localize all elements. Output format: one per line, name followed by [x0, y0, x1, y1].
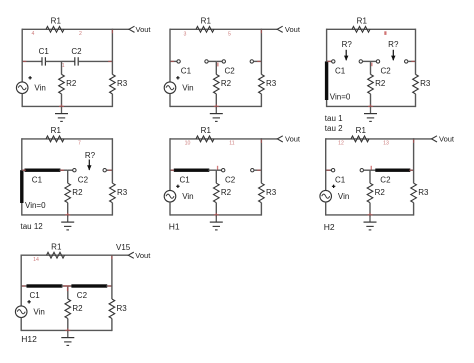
wire R2 to bottom (circuit 4) — [67, 203, 69, 215]
node 2 (circuit 1) — [79, 31, 82, 37]
probe arrow R? left (circuit 3) — [345, 50, 347, 60]
resistor R1 (circuit 6) — [351, 136, 369, 142]
resistor R3 (circuit 7) — [109, 299, 115, 318]
wire right rail lower (circuit 5) — [260, 203, 262, 216]
open terminal C1 left (circuit 6) — [331, 169, 334, 172]
open terminal C1 left (circuit 2) — [177, 60, 180, 63]
node 14 (circuit 7) — [33, 257, 39, 263]
node tick (circuit 7) — [63, 285, 70, 287]
svg-text:C2: C2 — [225, 67, 236, 76]
svg-text:Vout: Vout — [439, 135, 455, 144]
wire mid-right (circuit 3) — [408, 60, 416, 62]
wire mid-left stub (circuit 7) — [21, 285, 27, 287]
resistor R1 (circuit 2) — [196, 26, 214, 32]
wire mid-left stub (circuit 6) — [326, 169, 332, 171]
output pin Vout (circuit 7) — [128, 252, 134, 258]
wire bottom (circuit 1) — [22, 105, 112, 107]
svg-text:13: 13 — [383, 140, 389, 146]
svg-text:Vout: Vout — [136, 25, 152, 34]
junction ground node (circuit 4) — [65, 214, 70, 216]
net mark mid-left (circuit 4) — [23, 169, 27, 171]
resistor R3 (circuit 6) — [411, 183, 417, 202]
svg-text:R1: R1 — [201, 126, 212, 135]
resistor R2 (circuit 1) — [59, 74, 65, 93]
wire top (circuit 1) — [22, 28, 112, 30]
wire node to C2 (circuit 6) — [370, 169, 376, 171]
svg-text:C1: C1 — [335, 67, 346, 76]
wire C1 to node (circuit 3) — [363, 60, 371, 62]
wire top (circuit 6) — [326, 138, 414, 140]
svg-text:R1: R1 — [201, 17, 212, 26]
wire bottom (circuit 4) — [22, 214, 113, 216]
node tick (circuit 3) — [371, 63, 372, 67]
wire right rail upper (circuit 1) — [111, 29, 113, 75]
source Vin (circuit 2) — [164, 82, 176, 94]
junction ground node (circuit 2) — [214, 105, 219, 107]
wire mid-right (circuit 5) — [254, 169, 261, 171]
svg-text:R3: R3 — [420, 79, 431, 88]
source Vin (circuit 7) — [15, 306, 27, 318]
wire mid-right (circuit 1) — [78, 60, 112, 62]
wire node to R2 (circuit 4) — [67, 170, 69, 183]
wire bottom (circuit 7) — [21, 329, 112, 331]
wire C1 to node (circuit 6) — [364, 169, 371, 171]
plus mark Vin (circuit 5) — [176, 185, 179, 188]
wire mid-right (circuit 2) — [254, 60, 262, 62]
svg-text:C1: C1 — [32, 175, 43, 184]
wire node to R2 (circuit 7) — [67, 286, 69, 299]
open terminal C1 left (circuit 3) — [332, 60, 335, 63]
wire R2 to bottom (circuit 7) — [67, 319, 69, 331]
resistor R1 (circuit 1) — [46, 26, 64, 32]
open terminal C2 left (circuit 4) — [73, 169, 76, 172]
wire R2 to bottom (circuit 6) — [369, 203, 371, 215]
svg-text:C1: C1 — [180, 175, 191, 184]
wire C1 to node (circuit 1) — [45, 60, 61, 62]
node tick (circuit 7) — [67, 288, 68, 292]
wire left rail lower (circuit 6) — [325, 202, 327, 215]
wire R2 to bottom (circuit 2) — [215, 94, 217, 107]
ground (circuit 6) — [369, 215, 371, 222]
wire node to R2 (circuit 2) — [215, 61, 217, 74]
net mark mid-left (circuit 1) — [23, 60, 27, 62]
wire top (circuit 2) — [170, 28, 261, 30]
svg-text:Vout: Vout — [285, 135, 301, 144]
net mark mid-right (circuit 3) — [411, 60, 415, 62]
wire right rail lower (circuit 4) — [111, 203, 113, 216]
wire mid-left (circuit 1) — [22, 60, 42, 62]
wire node to C2 (circuit 7) — [68, 285, 73, 287]
wire bottom (circuit 5) — [170, 214, 261, 216]
svg-text:R3: R3 — [266, 79, 277, 88]
open terminal C2 right (circuit 2) — [250, 60, 253, 63]
wire node to R2 (circuit 1) — [61, 61, 63, 74]
svg-text:C2: C2 — [380, 175, 391, 184]
svg-text:12: 12 — [338, 140, 344, 146]
svg-text:C2: C2 — [381, 67, 392, 76]
source Vin (circuit 1) — [16, 82, 28, 94]
junction ground node (circuit 3) — [368, 105, 373, 107]
wire top (circuit 7) — [21, 254, 112, 256]
resistor R3 (circuit 1) — [110, 74, 116, 93]
wire right rail lower (circuit 6) — [413, 203, 415, 216]
svg-text:R2: R2 — [72, 188, 83, 197]
resistor R1 (circuit 3) — [352, 26, 370, 32]
svg-text:R3: R3 — [117, 79, 128, 88]
net mark mid-right (circuit 6) — [409, 169, 413, 171]
open terminal C1 right (circuit 3) — [359, 60, 362, 63]
svg-text:C2: C2 — [77, 291, 88, 300]
wire top (circuit 3) — [327, 28, 416, 30]
short Vin=0 bar (circuit 3) — [325, 61, 328, 100]
node tick (circuit 6) — [371, 166, 372, 170]
svg-text:R1: R1 — [357, 17, 368, 26]
svg-text:C1: C1 — [181, 67, 192, 76]
wire left rail lower (circuit 1) — [21, 94, 23, 107]
junction ground node (circuit 7) — [65, 329, 70, 331]
net mark mid-left (circuit 6) — [326, 169, 330, 171]
svg-text:Vin: Vin — [33, 308, 44, 317]
svg-text:R1: R1 — [356, 126, 367, 135]
svg-text:Vin: Vin — [182, 84, 193, 93]
wire left rail lower (circuit 3) — [326, 100, 328, 107]
wire C1 to node (circuit 5) — [208, 169, 216, 171]
wire mid-right (circuit 4) — [106, 169, 112, 171]
open terminal C2 right (circuit 5) — [251, 169, 254, 172]
net mark mid-left (circuit 2) — [171, 60, 175, 62]
node 5 (circuit 2) — [228, 31, 231, 37]
wire mid-left stub (circuit 2) — [170, 60, 177, 62]
svg-text:R3: R3 — [117, 188, 128, 197]
svg-text:R3: R3 — [418, 188, 429, 197]
open terminal C2 left (circuit 3) — [376, 60, 379, 63]
ground (circuit 4) — [67, 215, 69, 222]
wire Vout tap (circuit 2) — [261, 28, 277, 30]
svg-text:5: 5 — [228, 31, 231, 37]
wire node to R2 (circuit 5) — [215, 170, 217, 183]
wire left rail lower (circuit 2) — [169, 94, 171, 107]
wire R2 to bottom (circuit 3) — [370, 94, 372, 107]
open terminal C2 left (circuit 2) — [222, 60, 225, 63]
open terminal C1 right (circuit 6) — [360, 169, 363, 172]
wire R2 to bottom (circuit 5) — [215, 203, 217, 215]
short C2 bar (circuit 6) — [375, 169, 410, 172]
wire left rail upper (circuit 5) — [169, 138, 171, 190]
resistor R3 (circuit 2) — [259, 74, 265, 93]
wire bottom (circuit 6) — [326, 214, 414, 216]
node 4 (circuit 1) — [32, 31, 35, 37]
resistor R1 (circuit 4) — [46, 136, 64, 142]
svg-text:H1: H1 — [169, 221, 180, 231]
wire R2 to bottom (circuit 1) — [61, 94, 63, 107]
svg-text:tau 12: tau 12 — [21, 222, 44, 231]
node tick (circuit 3) — [384, 31, 386, 35]
svg-text:C2: C2 — [78, 175, 89, 184]
svg-text:11: 11 — [229, 140, 234, 146]
wire top (circuit 5) — [170, 138, 261, 140]
svg-text:R?: R? — [85, 151, 96, 160]
resistor R3 (circuit 4) — [110, 183, 116, 202]
ground (circuit 1) — [61, 106, 63, 113]
svg-text:R2: R2 — [66, 79, 77, 88]
svg-text:R1: R1 — [51, 17, 62, 26]
wire right rail lower (circuit 2) — [260, 94, 262, 107]
svg-text:Vin=0: Vin=0 — [330, 93, 351, 102]
svg-text:Vin=0: Vin=0 — [25, 201, 46, 210]
wire left rail upper (circuit 2) — [169, 29, 171, 82]
junction ground node (circuit 5) — [214, 214, 219, 216]
wire node to C2 (circuit 4) — [68, 169, 73, 171]
svg-text:R?: R? — [388, 40, 399, 49]
resistor R2 (circuit 7) — [65, 299, 71, 318]
wire Vout tap (circuit 1) — [112, 28, 129, 30]
output pin Vout (circuit 6) — [432, 136, 438, 142]
plus mark Vin (circuit 6) — [332, 185, 335, 188]
resistor R1 (circuit 5) — [196, 136, 214, 142]
capacitor C1 (circuit 1) — [41, 57, 43, 65]
plus mark Vin (circuit 1) — [28, 76, 31, 79]
output pin Vout (circuit 5) — [277, 136, 283, 142]
wire C1 to node (circuit 4) — [59, 169, 67, 171]
open terminal C2 right (circuit 4) — [103, 169, 106, 172]
ground (circuit 7) — [67, 330, 69, 337]
svg-text:C1: C1 — [39, 47, 50, 56]
wire left rail lower (circuit 5) — [169, 202, 171, 215]
wire mid-right (circuit 7) — [106, 285, 112, 287]
wire left rail lower (circuit 4) — [21, 203, 23, 216]
open terminal C1 right (circuit 2) — [205, 60, 208, 63]
short C1 bar (circuit 7) — [27, 284, 63, 287]
node 3 (circuit 2) — [184, 31, 187, 37]
svg-text:R3: R3 — [266, 188, 277, 197]
node tick (circuit 2) — [217, 63, 218, 67]
node 7 (circuit 4) — [78, 140, 81, 146]
wire node to R2 (circuit 3) — [370, 61, 372, 74]
open terminal C2 right (circuit 3) — [405, 60, 408, 63]
wire right rail upper (circuit 3) — [415, 29, 417, 75]
resistor R2 (circuit 2) — [214, 74, 220, 93]
wire node to C2 (circuit 1) — [62, 60, 75, 62]
svg-text:Vin: Vin — [182, 192, 193, 201]
junction ground node (circuit 6) — [368, 214, 373, 216]
svg-text:H2: H2 — [324, 222, 335, 232]
wire node to C2 (circuit 2) — [216, 60, 222, 62]
short C1 bar (circuit 4) — [25, 169, 61, 172]
junction Vout node (circuit 2) — [260, 30, 262, 34]
node 12 (circuit 6) — [338, 140, 344, 146]
wire left rail upper (circuit 4) — [21, 138, 23, 170]
svg-text:V15: V15 — [116, 243, 131, 252]
wire Vout tap (circuit 6) — [414, 138, 432, 140]
capacitor C2 (circuit 1) — [74, 57, 76, 65]
junction Vout node (circuit 6) — [413, 139, 415, 143]
probe arrow R? (circuit 4) — [88, 160, 90, 170]
wire right rail lower (circuit 1) — [111, 94, 113, 107]
wire left rail lower (circuit 7) — [20, 318, 22, 331]
svg-text:R2: R2 — [375, 188, 386, 197]
svg-text:2: 2 — [79, 31, 82, 37]
probe arrow R? right (circuit 3) — [392, 50, 394, 60]
open terminal C2 left (circuit 5) — [222, 169, 225, 172]
wire left rail upper (circuit 6) — [325, 138, 327, 190]
svg-text:Vin: Vin — [338, 192, 349, 201]
svg-text:R1: R1 — [51, 126, 62, 135]
svg-text:R2: R2 — [72, 304, 83, 313]
plus mark Vin (circuit 2) — [176, 76, 179, 79]
net mark mid-right (circuit 2) — [257, 60, 261, 62]
resistor R3 (circuit 3) — [413, 74, 419, 93]
net mark mid-right (circuit 5) — [257, 169, 261, 171]
wire right rail upper (circuit 6) — [413, 138, 415, 183]
svg-text:3: 3 — [184, 31, 187, 37]
ground (circuit 2) — [215, 106, 217, 113]
ground (circuit 5) — [215, 215, 217, 222]
wire C1 to node (circuit 2) — [208, 60, 216, 62]
svg-text:Vout: Vout — [285, 25, 301, 34]
svg-text:4: 4 — [32, 31, 35, 37]
wire right rail upper (circuit 2) — [260, 29, 262, 75]
node tick (circuit 5) — [217, 166, 218, 170]
resistor R3 (circuit 5) — [259, 183, 265, 202]
svg-text:C2: C2 — [71, 47, 82, 56]
resistor R2 (circuit 6) — [367, 183, 373, 202]
svg-text:R1: R1 — [51, 242, 62, 251]
wire left rail upper (circuit 1) — [21, 29, 23, 82]
source Vin (circuit 6) — [320, 190, 332, 202]
svg-text:R2: R2 — [375, 79, 386, 88]
junction Vout node (circuit 7) — [111, 256, 113, 260]
short C1 bar (circuit 5) — [174, 169, 210, 172]
source Vin (circuit 5) — [164, 190, 176, 202]
node tick (circuit 4) — [60, 169, 64, 171]
junction Vout node (circuit 1) — [111, 30, 113, 34]
output pin Vout (circuit 1) — [129, 26, 135, 32]
wire right rail upper (circuit 5) — [260, 138, 262, 183]
net mark mid-left (circuit 7) — [22, 285, 26, 287]
svg-text:R2: R2 — [221, 188, 232, 197]
ground (circuit 3) — [370, 106, 372, 113]
wire Vout tap (circuit 5) — [261, 138, 277, 140]
svg-text:tau 1: tau 1 — [325, 114, 343, 123]
node 13 (circuit 6) — [383, 140, 389, 146]
net mark mid-left (circuit 5) — [171, 169, 175, 171]
wire top (circuit 4) — [22, 138, 113, 140]
svg-text:Vin: Vin — [34, 84, 45, 93]
svg-text:C1: C1 — [335, 175, 346, 184]
wire mid-left stub (circuit 3) — [327, 60, 332, 62]
svg-text:R2: R2 — [221, 79, 232, 88]
plus mark Vin (circuit 7) — [27, 300, 30, 303]
node 10 (circuit 5) — [185, 140, 191, 146]
resistor R2 (circuit 3) — [368, 74, 374, 93]
resistor R1 (circuit 7) — [47, 252, 65, 258]
svg-text:R?: R? — [342, 40, 353, 49]
resistor R2 (circuit 4) — [65, 183, 71, 202]
node 11 (circuit 5) — [229, 140, 234, 146]
wire right rail lower (circuit 7) — [111, 319, 113, 332]
net mark mid-right (circuit 7) — [108, 285, 112, 287]
wire C1 to node (circuit 7) — [61, 285, 67, 287]
svg-text:tau 2: tau 2 — [325, 124, 343, 133]
node 1 (circuit 1) — [62, 63, 65, 69]
svg-text:R3: R3 — [117, 304, 128, 313]
wire right rail lower (circuit 3) — [415, 94, 417, 107]
wire mid-right (circuit 6) — [409, 169, 413, 171]
wire mid-left stub (circuit 5) — [170, 169, 175, 171]
net mark mid-right (circuit 4) — [108, 169, 112, 171]
svg-text:7: 7 — [78, 140, 81, 146]
svg-text:14: 14 — [33, 257, 39, 263]
output pin Vout (circuit 2) — [277, 26, 283, 32]
svg-text:C1: C1 — [30, 291, 41, 300]
net mark mid-right (circuit 1) — [108, 60, 112, 62]
net mark mid-left (circuit 3) — [327, 60, 331, 62]
svg-text:10: 10 — [185, 140, 191, 146]
wire node to C2 (circuit 3) — [371, 60, 377, 62]
short C2 bar (circuit 7) — [71, 284, 107, 287]
svg-text:Vout: Vout — [135, 251, 151, 260]
svg-text:C2: C2 — [225, 175, 236, 184]
wire bottom (circuit 2) — [170, 105, 261, 107]
wire right rail upper (circuit 7) — [111, 255, 113, 300]
wire bottom (circuit 3) — [327, 105, 416, 107]
short Vin=0 bar (circuit 4) — [20, 170, 23, 203]
svg-text:1: 1 — [62, 63, 65, 69]
junction ground node (circuit 1) — [59, 105, 64, 107]
wire node to C2 (circuit 5) — [216, 169, 221, 171]
wire left rail upper (circuit 7) — [20, 255, 22, 306]
wire mid-left stub (circuit 4) — [22, 169, 26, 171]
wire Vout tap (circuit 7) — [112, 254, 128, 256]
wire left rail upper (circuit 3) — [326, 29, 328, 62]
resistor R2 (circuit 5) — [214, 183, 220, 202]
wire node to R2 (circuit 6) — [369, 170, 371, 183]
junction Vout node (circuit 5) — [260, 139, 262, 143]
wire right rail upper (circuit 4) — [111, 138, 113, 183]
svg-text:H12: H12 — [21, 334, 37, 344]
